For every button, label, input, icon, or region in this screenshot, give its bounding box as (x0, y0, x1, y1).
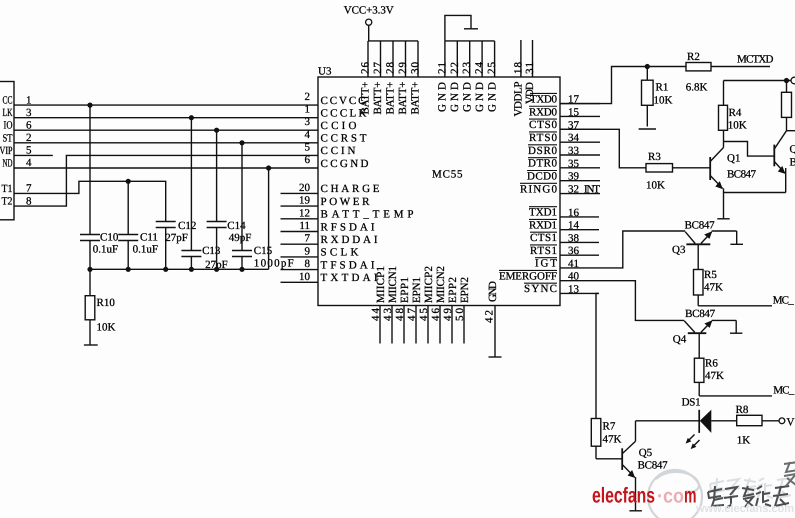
wire R6 to MC_ node (699, 395, 772, 397)
svg-text:CTS0: CTS0 (529, 119, 558, 131)
wire Q3 emitter to ground (712, 231, 737, 244)
junction R1 top (645, 64, 650, 69)
svg-text:C14: C14 (227, 220, 246, 232)
capacitor C12 (156, 220, 197, 269)
svg-text:46: 46 (430, 308, 442, 322)
U3 pin 12 BATT_TEMP (281, 207, 414, 220)
svg-text:47K: 47K (603, 433, 622, 445)
svg-text:RXD0: RXD0 (529, 106, 558, 118)
U3 pin 18 VDDLP (512, 40, 524, 117)
resistor R1 (642, 67, 673, 127)
resistor R8 (736, 404, 779, 447)
svg-text:R8: R8 (736, 404, 749, 416)
svg-text:28: 28 (385, 62, 397, 75)
svg-text:CCRST: CCRST (321, 133, 367, 145)
svg-text:34: 34 (568, 132, 580, 144)
wire BATT+ top bus (368, 40, 418, 42)
svg-text:TXD1: TXD1 (529, 207, 557, 219)
svg-text:45: 45 (418, 308, 430, 322)
svg-text:DCD0: DCD0 (527, 171, 558, 183)
svg-text:Q3: Q3 (672, 244, 686, 256)
U3 pin 19 POWER (281, 195, 371, 208)
U3 pin 17 TXD0 (active low) (530, 93, 600, 105)
U3 pin 29 BATT+ (397, 41, 409, 115)
power terminal VCC+3.3V (344, 5, 394, 41)
svg-text:R10: R10 (97, 297, 116, 309)
svg-text:RING0: RING0 (520, 183, 558, 195)
svg-text:elecfans: elecfans (592, 484, 655, 508)
svg-text:21: 21 (436, 62, 448, 74)
U3 pin 44 MIICP1 (370, 266, 387, 344)
svg-text:BATT+: BATT+ (360, 82, 372, 115)
svg-text:ND: ND (3, 158, 13, 170)
svg-text:VDD: VDD (524, 82, 536, 104)
junction right resistor top (784, 78, 789, 83)
svg-text:49: 49 (442, 308, 454, 322)
svg-text:1: 1 (305, 104, 311, 116)
U3 pin 4 CCRST (305, 129, 367, 145)
svg-text:MC_: MC_ (773, 384, 795, 396)
svg-text:Q1: Q1 (727, 153, 740, 165)
svg-text:R3: R3 (648, 151, 661, 163)
svg-text:CCIN: CCIN (321, 145, 356, 157)
svg-text:GND: GND (449, 82, 461, 112)
svg-text:R5: R5 (704, 269, 717, 281)
svg-text:CTS1: CTS1 (530, 232, 557, 244)
connector J1 (0, 82, 14, 220)
svg-text:2: 2 (305, 91, 311, 103)
svg-text:48: 48 (394, 308, 406, 322)
svg-text:10K: 10K (654, 95, 673, 107)
svg-text:6: 6 (305, 154, 311, 166)
U3 pin 41 IGT (active low) (535, 258, 599, 270)
U3 pin 16 TXD1 (active low) (529, 207, 599, 219)
svg-text:T1: T1 (2, 183, 13, 195)
svg-text:19: 19 (299, 195, 311, 207)
capacitor C10 (80, 105, 119, 269)
svg-text:12: 12 (299, 207, 310, 219)
svg-text:32: 32 (568, 184, 579, 196)
U3 pin 39 DCD0 (active low) (527, 171, 600, 183)
svg-text:ST: ST (3, 132, 13, 144)
wire Q5 emitter to ground (635, 477, 637, 510)
watermark light url text (695, 503, 794, 515)
U3 pin 45 MIICP2 (418, 266, 435, 344)
svg-text:EPP2: EPP2 (447, 277, 459, 303)
svg-text:15: 15 (568, 106, 580, 118)
svg-text:Q2: Q2 (790, 144, 795, 156)
svg-text:BATT+: BATT+ (372, 82, 384, 115)
svg-text:39: 39 (568, 171, 580, 183)
wire R5 to MC_ node (698, 305, 772, 307)
U3 pin 33 DSR0 (active low) (528, 145, 600, 157)
U3 pin 15 RXD0 (active low) (529, 106, 600, 118)
U3 pin 46 MIICN2 (430, 266, 447, 344)
transistor Q5 BC847 (622, 441, 668, 478)
U3 pin 20 CHARGE (281, 182, 380, 195)
wire Q5 collector to DS1 (635, 421, 637, 442)
ground bar below Q5 (629, 510, 642, 512)
U3 pin 32 RING0 (active low) (520, 183, 600, 195)
svg-text:V: V (787, 416, 795, 428)
svg-text:SYNC: SYNC (524, 283, 557, 295)
junction C15 tap on CCRST (239, 140, 244, 145)
wire Q1 collector to Q2 base (724, 142, 775, 157)
svg-text:10K: 10K (728, 119, 747, 131)
node MC_ (upper) (773, 294, 795, 306)
svg-text:C11: C11 (140, 231, 158, 243)
wire capacitor common bus (90, 168, 269, 269)
U3 pin 42 GND (483, 281, 499, 357)
U3 pin 5 CCIN (305, 141, 356, 157)
svg-text:MCTXD: MCTXD (737, 53, 774, 65)
svg-text:R7: R7 (603, 421, 616, 433)
svg-text:9: 9 (305, 245, 311, 257)
svg-text:R4: R4 (729, 107, 742, 119)
U3 pin 31 VDD (524, 40, 536, 104)
svg-text:24: 24 (474, 62, 486, 75)
svg-text:35: 35 (568, 158, 580, 170)
svg-text:BC847: BC847 (727, 169, 757, 181)
svg-text:36: 36 (568, 245, 580, 257)
svg-text:MC55: MC55 (432, 169, 463, 181)
svg-text:22: 22 (449, 62, 461, 74)
svg-text:25: 25 (486, 62, 498, 75)
U3 pin 30 BATT+ (410, 41, 422, 115)
svg-text:CC: CC (3, 95, 13, 107)
U3 pin 27 BATT+ (372, 41, 384, 115)
svg-text:CCGND: CCGND (321, 158, 369, 170)
svg-text:C15: C15 (254, 245, 273, 257)
ground symbol top (445, 15, 478, 41)
capacitor C15 (232, 143, 294, 270)
svg-text:6.8K: 6.8K (686, 82, 708, 94)
resistor R9 (partially visible at edge) (782, 81, 795, 131)
svg-text:R2: R2 (687, 51, 700, 63)
U3 pin 13 SYNC (active low) (524, 283, 599, 295)
svg-text:MIICP2: MIICP2 (423, 266, 435, 303)
U3 pin 21 GND (436, 41, 448, 112)
svg-text:30: 30 (410, 62, 422, 75)
svg-text:C13: C13 (202, 245, 221, 257)
svg-text:www.elecfans.com: www.elecfans.com (695, 503, 794, 515)
svg-text:MIICP1: MIICP1 (375, 266, 387, 303)
svg-text:41: 41 (568, 258, 579, 270)
svg-text:MC_: MC_ (773, 294, 795, 306)
transistor Q1 BC847 (710, 148, 756, 190)
watermark gray chinese characters (708, 478, 791, 507)
U3 pin 28 BATT+ (385, 41, 397, 115)
transistor Q3 BC847 (672, 220, 715, 256)
wire TXD0 to R1/R2 node (560, 67, 686, 104)
svg-text:DSR0: DSR0 (528, 145, 558, 157)
junction bus-C10/R10 (87, 267, 92, 272)
wire SYNC to R7 (596, 293, 599, 418)
node MC_ (lower) (773, 384, 795, 396)
wire EMERGOFF to Q4 (599, 281, 684, 321)
wire CCIO net (J1 pin6 to U3 pin3) (14, 129, 318, 131)
svg-text:31: 31 (524, 62, 536, 74)
U3 pin 37 CTS0 (active low) (529, 119, 600, 131)
U3 pin 47 EPN1 (406, 277, 423, 344)
svg-text:EPN2: EPN2 (459, 277, 471, 303)
wire T1 net (J1 pin7 to C11/C12) (14, 181, 166, 221)
wire CTS0 to R3 (560, 129, 646, 168)
U3 pin 38 CTS1 (active low) (530, 232, 599, 244)
svg-text:BATT+: BATT+ (385, 82, 397, 115)
svg-text:33: 33 (568, 145, 580, 157)
ground bar below U3 pin 42 (489, 356, 502, 358)
svg-text:0.1uF: 0.1uF (133, 243, 158, 255)
U3 pin 22 GND (449, 41, 461, 112)
U3 pin 2 CCVCC (305, 91, 366, 107)
svg-text:50: 50 (454, 308, 466, 322)
wire CCGND net (J1 pin4 to U3 pin6) (14, 167, 318, 169)
svg-text:13: 13 (568, 283, 580, 295)
junction bus-C14 (214, 267, 219, 272)
U3 pin 49 EPP2 (442, 277, 459, 344)
svg-text:10: 10 (299, 271, 311, 283)
U3 pin 43 MIICN1 (382, 266, 399, 344)
svg-text:47: 47 (406, 308, 418, 322)
junction bus-C15 (239, 267, 244, 272)
terminal circle V right (779, 416, 795, 428)
svg-text:20: 20 (299, 182, 311, 194)
wire CCIN net (J1 pin8 T2 to U3 pin5) (14, 155, 318, 206)
U3 pin 14 RXD1 (active low) (529, 219, 599, 231)
svg-text:GND: GND (474, 82, 486, 112)
svg-text:16: 16 (568, 207, 580, 219)
U3 pin 11 RFSDAI (281, 220, 375, 233)
svg-text:BC847: BC847 (638, 459, 669, 471)
U3 pin 1 CCCLK (305, 104, 367, 120)
svg-text:40: 40 (568, 271, 580, 283)
resistor R6 (694, 333, 724, 396)
ground bar right of Q4 (730, 332, 742, 334)
resistor R7 (591, 419, 622, 459)
svg-text:LK: LK (3, 107, 13, 119)
svg-text:GND: GND (437, 82, 449, 112)
wire J1 pin5 stub (VIP) (14, 154, 53, 156)
svg-text:EPP1: EPP1 (399, 277, 411, 303)
ground bar below Q1 (717, 218, 729, 220)
U3 pin 9 SCLK (281, 245, 359, 258)
svg-text:BATT+: BATT+ (397, 82, 409, 115)
capacitor C13 (181, 118, 227, 271)
svg-text:26: 26 (360, 62, 372, 75)
U3 pin 23 GND (461, 41, 473, 112)
U3 pin 24 GND (474, 41, 486, 112)
op-amp U3 MC55 body (318, 66, 560, 306)
junction bus-C12 (163, 267, 168, 272)
svg-text:MIICN2: MIICN2 (435, 266, 447, 303)
svg-text:BC847: BC847 (685, 308, 716, 320)
transistor Q2 BC847 (clipped at edge) (774, 131, 795, 174)
svg-text:0.1uF: 0.1uF (93, 243, 118, 255)
svg-text:47K: 47K (705, 370, 724, 382)
svg-text:·co: ·co (657, 486, 684, 508)
U3 pin 10 TXTDAI (281, 271, 378, 284)
svg-text:GND: GND (461, 82, 473, 112)
svg-text:C10: C10 (100, 231, 119, 243)
svg-text:BATT_TEMP: BATT_TEMP (321, 209, 414, 221)
svg-text:1000pF: 1000pF (254, 258, 294, 270)
junction ground-bus tap on CCGND (266, 165, 271, 170)
svg-text:EMERGOFF: EMERGOFF (499, 270, 557, 282)
U3 pin 6 CCGND (305, 154, 369, 170)
resistor R4 (719, 81, 747, 148)
svg-text:11: 11 (299, 220, 310, 232)
ground bar right of Q3 (730, 243, 743, 245)
svg-text:RTS1: RTS1 (530, 245, 557, 257)
ground bar below R10 (84, 344, 98, 346)
resistor R2 (686, 51, 770, 94)
svg-text:BC847: BC847 (685, 220, 716, 232)
svg-text:GND: GND (486, 82, 498, 112)
svg-text:43: 43 (382, 308, 394, 322)
svg-text:49pF: 49pF (229, 232, 252, 244)
U3 pin 36 RTS1 (active low) (530, 245, 599, 257)
U3 pin 35 DTR0 (active low) (528, 158, 600, 170)
svg-text:8: 8 (305, 258, 311, 270)
watermark swirl logo (648, 470, 702, 518)
junction bus-C11 (126, 267, 131, 272)
svg-text:INT: INT (584, 183, 600, 195)
U3 pin 48 EPP1 (394, 277, 411, 344)
svg-text:5: 5 (305, 141, 311, 153)
svg-text:RTS0: RTS0 (529, 132, 558, 144)
svg-text:Q4: Q4 (673, 333, 687, 345)
svg-text:R6: R6 (705, 358, 718, 370)
U3 pin 26 BATT+ (360, 41, 372, 115)
svg-text:m: m (684, 484, 697, 508)
wire IGT to Q3 (599, 231, 685, 268)
svg-text:BATT+: BATT+ (410, 82, 422, 115)
svg-text:7: 7 (305, 233, 311, 245)
svg-text:T2: T2 (2, 196, 13, 208)
svg-text:18: 18 (512, 62, 524, 75)
svg-text:EPN1: EPN1 (411, 277, 423, 303)
wire CCRST net (J1 pin2 to U3 pin4) (14, 142, 318, 144)
wire Q1/Q2 emitters to ground (724, 168, 786, 219)
svg-text:RXD1: RXD1 (529, 219, 557, 231)
U3 pin 8 TFSDAI (281, 258, 375, 271)
U3 pin 7 RXDDAI (281, 233, 378, 246)
svg-text:VDDLP: VDDLP (513, 82, 525, 117)
svg-text:MIICN1: MIICN1 (387, 266, 399, 303)
ground bar below R1 (639, 128, 656, 130)
watermark red logo elecfans.com (592, 484, 697, 508)
U3 pin 25 GND (486, 41, 498, 112)
svg-text:29: 29 (397, 62, 409, 75)
node MCTXD (737, 53, 774, 65)
svg-text:10K: 10K (97, 322, 116, 334)
svg-text:Q5: Q5 (639, 447, 653, 459)
terminal circle right edge top (791, 77, 795, 84)
svg-text:R1: R1 (656, 82, 669, 94)
U3 pin 40 EMERGOFF (active low) (499, 270, 599, 282)
LED DS1 (636, 396, 737, 449)
junction C11 tap on T1 net (126, 179, 131, 184)
svg-text:IO: IO (4, 120, 13, 132)
svg-text:BC847: BC847 (790, 157, 795, 169)
svg-text:14: 14 (568, 220, 580, 232)
wire Q4 emitter to ground (712, 320, 736, 333)
resistor R5 (694, 244, 724, 305)
svg-text:27: 27 (372, 62, 384, 75)
svg-text:44: 44 (370, 308, 382, 322)
svg-text:1K: 1K (737, 435, 751, 447)
junction C14 tap on CCIO (214, 128, 219, 133)
U3 pin 34 RTS0 (active low) (529, 132, 600, 144)
svg-text:DTR0: DTR0 (528, 158, 558, 170)
svg-text:U3: U3 (318, 66, 332, 78)
junction C10 tap on CCVCC (87, 103, 92, 108)
resistor R10 (85, 269, 115, 345)
svg-text:10K: 10K (646, 179, 665, 191)
svg-text:IGT: IGT (535, 258, 557, 270)
svg-text:27pF: 27pF (165, 232, 188, 244)
svg-text:4: 4 (305, 129, 311, 141)
svg-text:3: 3 (305, 116, 311, 128)
svg-text:23: 23 (461, 62, 473, 75)
transistor Q4 BC847 (673, 308, 716, 346)
wire R4 top to right resistor node (724, 80, 792, 82)
capacitor C11 (118, 181, 158, 269)
svg-text:47K: 47K (704, 281, 723, 293)
svg-text:C12: C12 (178, 220, 196, 232)
svg-text:38: 38 (568, 232, 580, 244)
svg-text:DS1: DS1 (682, 396, 701, 408)
U3 pin 3 CCIO (305, 116, 357, 132)
svg-text:GND: GND (487, 281, 499, 302)
U3 pin 50 EPN2 (454, 277, 471, 344)
junction C13 tap on CCCLK (189, 115, 194, 120)
capacitor C14 (207, 130, 252, 269)
wire GND top bus (445, 40, 495, 42)
svg-text:VCC+3.3V: VCC+3.3V (344, 5, 394, 17)
resistor R3 (646, 151, 710, 192)
wire CCCLK net (J1 pin3 to U3 pin1) (14, 117, 318, 119)
junction bus-C13 (189, 267, 194, 272)
wire CCVCC net (J1 pin1 to U3 pin2) (14, 104, 318, 106)
watermark gray character right edge (784, 462, 795, 486)
connector J1 pin numbers (26, 94, 32, 207)
svg-text:VIP: VIP (0, 145, 13, 157)
